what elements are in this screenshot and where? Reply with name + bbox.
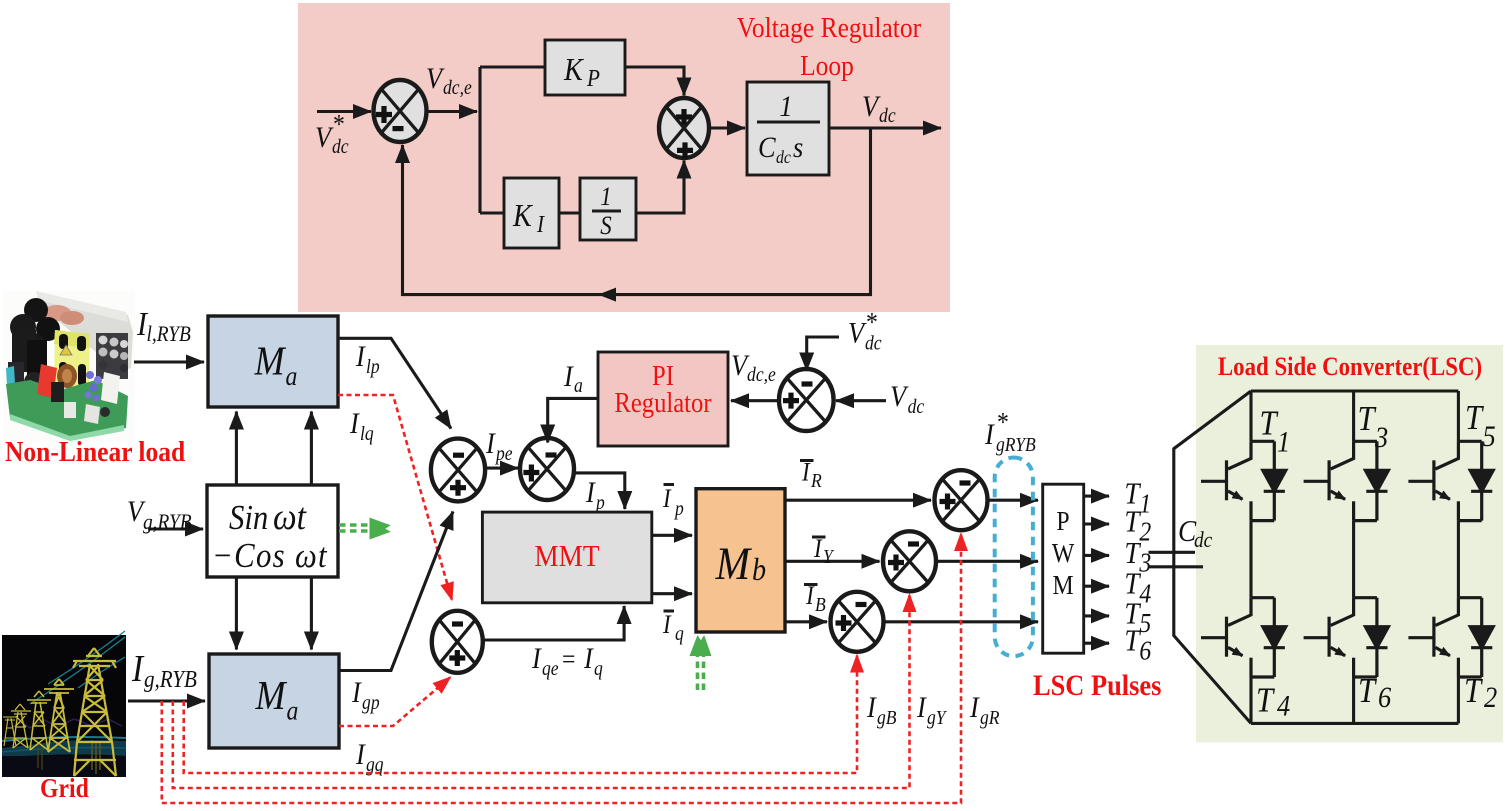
svg-text:I: I (984, 419, 995, 452)
svg-text:T: T (1256, 682, 1276, 720)
svg-text:I: I (563, 361, 574, 394)
svg-text:I: I (531, 643, 542, 676)
svg-text:6: 6 (1139, 635, 1151, 666)
svg-text:V: V (862, 91, 881, 124)
svg-text:6: 6 (1378, 682, 1391, 715)
svg-text:qe: qe (542, 658, 559, 680)
svg-text:I: I (131, 647, 145, 689)
svg-text:I: I (351, 677, 362, 710)
svg-text:gRYB: gRYB (996, 434, 1036, 456)
svg-text:5: 5 (1139, 608, 1151, 639)
svg-text:gY: gY (927, 707, 948, 729)
svg-text:Load Side Converter(LSC): Load Side Converter(LSC) (1218, 353, 1482, 382)
svg-text:R: R (810, 470, 822, 492)
svg-text:4: 4 (1277, 690, 1290, 723)
svg-text:M: M (1052, 570, 1073, 601)
svg-text:2: 2 (1139, 516, 1151, 547)
svg-text:pe: pe (494, 443, 512, 465)
svg-text:S: S (600, 212, 611, 241)
svg-text:2: 2 (1484, 682, 1497, 715)
svg-text:I: I (916, 692, 927, 725)
svg-text:lq: lq (360, 423, 374, 445)
svg-text:b: b (752, 551, 766, 587)
svg-text:I: I (866, 692, 877, 725)
svg-text:B: B (815, 594, 826, 616)
svg-text:C: C (758, 132, 777, 165)
svg-text:dc: dc (908, 396, 925, 418)
svg-text:P: P (586, 65, 600, 92)
svg-text:dc: dc (1194, 529, 1212, 552)
svg-text:V: V (426, 63, 445, 96)
svg-text:5: 5 (1483, 421, 1496, 454)
svg-text:g,RYB: g,RYB (144, 666, 197, 693)
svg-text:=: = (562, 644, 575, 675)
svg-text:I: I (355, 341, 366, 374)
svg-text:l,RYB: l,RYB (147, 323, 192, 346)
svg-text:dc: dc (776, 147, 791, 167)
svg-text:V: V (848, 317, 867, 350)
svg-text:Loop: Loop (800, 50, 854, 82)
svg-text:dc,e: dc,e (747, 364, 776, 386)
svg-text:dc,e: dc,e (443, 77, 472, 99)
svg-text:g,RYB: g,RYB (143, 511, 192, 534)
svg-text:I: I (536, 211, 545, 238)
svg-text:gp: gp (362, 692, 380, 714)
svg-text:V: V (890, 381, 909, 414)
svg-text:LSC Pulses: LSC Pulses (1033, 670, 1161, 703)
svg-text:dc: dc (865, 333, 882, 355)
svg-text:M: M (255, 674, 288, 719)
svg-text:1: 1 (779, 91, 792, 124)
svg-text:1: 1 (1139, 488, 1151, 519)
svg-text:V: V (315, 122, 334, 155)
svg-text:K: K (512, 197, 533, 233)
svg-text:4: 4 (1139, 578, 1151, 609)
svg-text:T: T (1358, 672, 1378, 710)
svg-text:gR: gR (980, 707, 1000, 729)
svg-text:I: I (805, 582, 815, 611)
svg-text:s: s (793, 132, 803, 165)
svg-text:I: I (662, 485, 672, 514)
svg-text:q: q (675, 623, 684, 645)
svg-text:1: 1 (600, 183, 611, 212)
svg-text:M: M (254, 339, 287, 384)
svg-text:p: p (673, 498, 684, 520)
svg-text:Voltage Regulator: Voltage Regulator (737, 12, 921, 44)
svg-text:1: 1 (1277, 426, 1290, 459)
svg-text:lp: lp (366, 356, 380, 378)
svg-text:I: I (349, 408, 360, 441)
svg-text:a: a (287, 695, 299, 726)
svg-text:I: I (583, 643, 594, 676)
svg-text:a: a (574, 375, 583, 397)
svg-text:MMT: MMT (534, 539, 599, 573)
svg-text:Sin: Sin (229, 499, 268, 537)
svg-text:gB: gB (877, 707, 897, 729)
svg-text:P: P (1056, 506, 1069, 537)
svg-text:q: q (594, 658, 603, 680)
svg-text:K: K (563, 51, 584, 87)
svg-text:I: I (585, 477, 596, 510)
svg-text:I: I (662, 611, 672, 640)
svg-text:Regulator: Regulator (614, 388, 711, 419)
svg-text:I: I (355, 739, 366, 772)
svg-text:−Cos ωt: −Cos ωt (212, 537, 328, 575)
svg-text:I: I (969, 692, 980, 725)
svg-text:ωt: ωt (273, 495, 307, 537)
svg-text:*: * (333, 109, 345, 140)
svg-text:W: W (1052, 538, 1074, 569)
svg-text:a: a (286, 361, 298, 392)
svg-text:dc: dc (879, 105, 896, 127)
svg-text:T: T (1464, 672, 1484, 710)
svg-text:3: 3 (1374, 422, 1388, 455)
svg-text:Non-Linear load: Non-Linear load (5, 436, 185, 468)
svg-text:I: I (485, 428, 496, 461)
svg-text:Grid: Grid (40, 773, 89, 804)
svg-text:*: * (997, 407, 1009, 438)
svg-text:Y: Y (823, 546, 835, 568)
svg-text:M: M (715, 538, 752, 590)
svg-text:I: I (801, 458, 811, 487)
svg-text:I: I (813, 535, 823, 564)
